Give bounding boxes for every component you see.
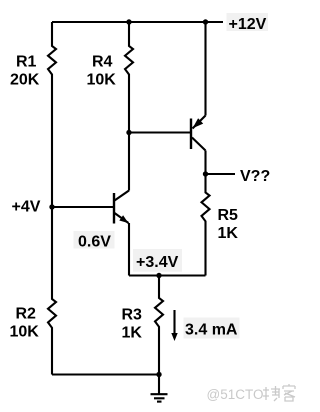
svg-text:10K: 10K: [10, 324, 40, 341]
svg-text:1K: 1K: [218, 225, 239, 242]
svg-text:R3: R3: [122, 307, 143, 324]
svg-text:+3.4V: +3.4V: [136, 254, 179, 271]
svg-text:R4: R4: [92, 54, 113, 71]
svg-text:R5: R5: [218, 207, 239, 224]
svg-text:10K: 10K: [87, 72, 117, 89]
svg-text:20K: 20K: [10, 72, 40, 89]
svg-text:V??: V??: [240, 168, 270, 185]
svg-text:@51CTO: @51CTO: [207, 387, 264, 402]
svg-text:R1: R1: [16, 54, 37, 71]
svg-text:+12V: +12V: [229, 16, 267, 33]
svg-text:3.4 mA: 3.4 mA: [185, 322, 238, 339]
svg-text:R2: R2: [16, 306, 37, 323]
svg-text:0.6V: 0.6V: [78, 234, 111, 251]
svg-text:+4V: +4V: [12, 199, 41, 216]
svg-text:1K: 1K: [122, 325, 143, 342]
